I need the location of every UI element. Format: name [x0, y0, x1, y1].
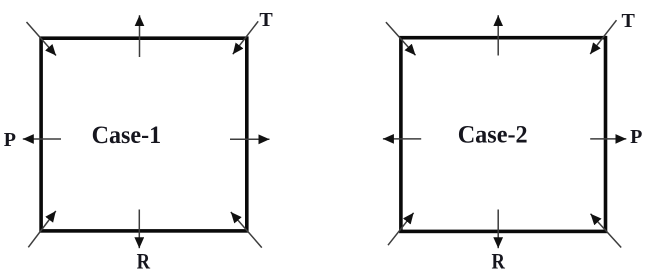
svg-text:R: R [492, 248, 506, 273]
svg-text:P: P [4, 129, 16, 151]
svg-text:P: P [630, 126, 642, 148]
svg-text:Case-2: Case-2 [458, 122, 528, 149]
svg-text:R: R [137, 248, 151, 273]
svg-text:T: T [622, 10, 636, 32]
svg-text:Case-1: Case-1 [92, 122, 162, 149]
svg-text:T: T [259, 9, 273, 31]
